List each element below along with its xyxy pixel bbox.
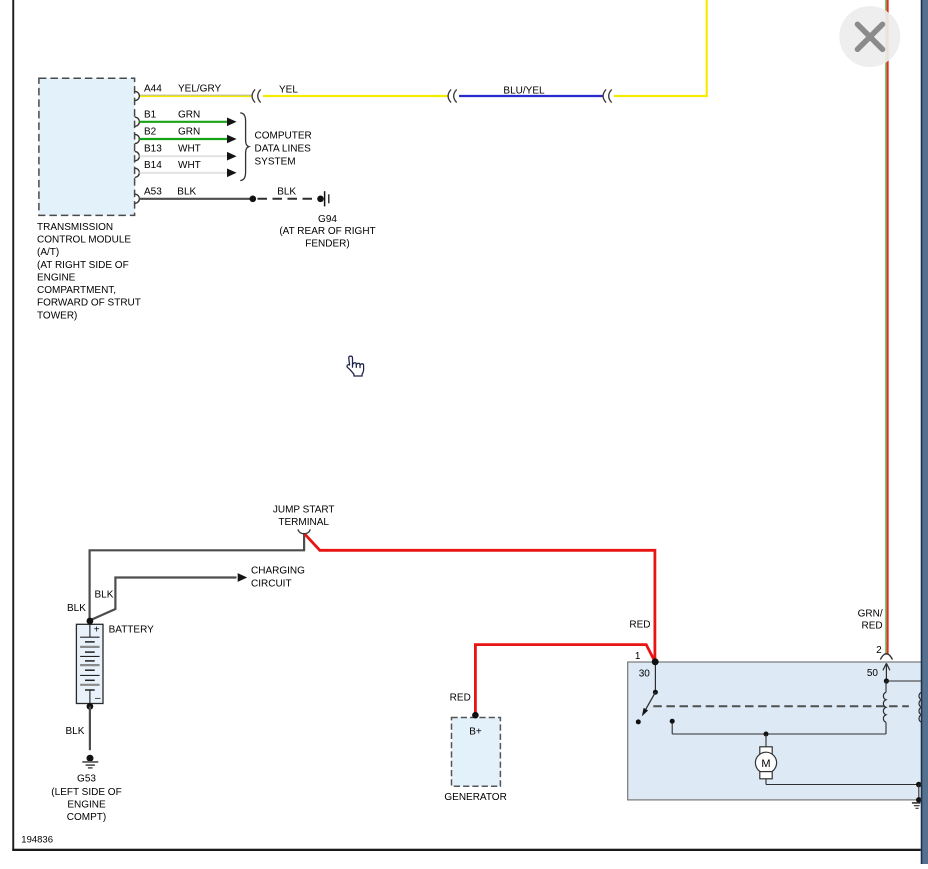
svg-text:–: – bbox=[95, 693, 101, 704]
svg-text:B13: B13 bbox=[144, 143, 162, 154]
svg-text:B+: B+ bbox=[469, 727, 482, 738]
svg-text:RED: RED bbox=[629, 619, 650, 630]
svg-text:B2: B2 bbox=[144, 126, 157, 137]
svg-text:BLK: BLK bbox=[66, 726, 85, 737]
svg-text:COMPT): COMPT) bbox=[67, 812, 106, 823]
svg-text:SYSTEM: SYSTEM bbox=[255, 156, 296, 167]
svg-text:RED: RED bbox=[450, 693, 471, 704]
svg-text:TRANSMISSION: TRANSMISSION bbox=[37, 222, 113, 233]
svg-text:G53: G53 bbox=[77, 774, 96, 785]
svg-text:(AT REAR OF RIGHT: (AT REAR OF RIGHT bbox=[279, 226, 375, 237]
svg-text:ENGINE: ENGINE bbox=[67, 800, 106, 811]
svg-text:BLU/YEL: BLU/YEL bbox=[503, 85, 545, 96]
svg-text:M: M bbox=[761, 758, 770, 770]
svg-text:YEL/GRY: YEL/GRY bbox=[178, 83, 221, 94]
svg-text:BLK: BLK bbox=[277, 186, 296, 197]
svg-text:B14: B14 bbox=[144, 160, 162, 171]
svg-text:1: 1 bbox=[635, 651, 641, 662]
svg-text:GRN: GRN bbox=[178, 126, 200, 137]
svg-text:CIRCUIT: CIRCUIT bbox=[251, 578, 292, 589]
svg-text:G94: G94 bbox=[318, 214, 337, 225]
svg-text:COMPARTMENT,: COMPARTMENT, bbox=[37, 285, 116, 296]
svg-text:194836: 194836 bbox=[21, 835, 53, 846]
svg-text:(AT RIGHT SIDE OF: (AT RIGHT SIDE OF bbox=[37, 260, 129, 271]
svg-text:B1: B1 bbox=[144, 109, 157, 120]
svg-text:RED: RED bbox=[861, 621, 882, 632]
svg-text:50: 50 bbox=[867, 668, 879, 679]
svg-text:WHT: WHT bbox=[178, 160, 201, 171]
svg-text:WHT: WHT bbox=[178, 143, 201, 154]
svg-text:BLK: BLK bbox=[177, 186, 196, 197]
svg-text:BATTERY: BATTERY bbox=[109, 625, 155, 636]
svg-text:BLK: BLK bbox=[67, 603, 86, 614]
svg-text:TERMINAL: TERMINAL bbox=[278, 517, 329, 528]
svg-text:GENERATOR: GENERATOR bbox=[444, 792, 506, 803]
svg-text:GRN: GRN bbox=[178, 109, 200, 120]
svg-text:CHARGING: CHARGING bbox=[251, 566, 305, 577]
svg-text:FENDER): FENDER) bbox=[305, 239, 349, 250]
svg-text:GRN/: GRN/ bbox=[858, 609, 883, 620]
svg-text:+: + bbox=[94, 625, 100, 636]
svg-text:A53: A53 bbox=[144, 186, 162, 197]
svg-text:ENGINE: ENGINE bbox=[37, 272, 76, 283]
svg-text:COMPUTER: COMPUTER bbox=[255, 130, 312, 141]
svg-text:TOWER): TOWER) bbox=[37, 310, 77, 321]
svg-text:A44: A44 bbox=[144, 83, 162, 94]
svg-text:(LEFT SIDE OF: (LEFT SIDE OF bbox=[51, 787, 121, 798]
svg-text:30: 30 bbox=[639, 669, 651, 680]
svg-text:YEL: YEL bbox=[279, 85, 298, 96]
svg-text:(A/T): (A/T) bbox=[37, 247, 59, 258]
svg-text:CONTROL MODULE: CONTROL MODULE bbox=[37, 235, 131, 246]
svg-text:DATA LINES: DATA LINES bbox=[255, 143, 312, 154]
svg-text:BLK: BLK bbox=[95, 590, 114, 601]
svg-text:JUMP START: JUMP START bbox=[273, 504, 335, 515]
svg-text:2: 2 bbox=[876, 645, 882, 656]
svg-text:FORWARD OF STRUT: FORWARD OF STRUT bbox=[37, 298, 141, 309]
